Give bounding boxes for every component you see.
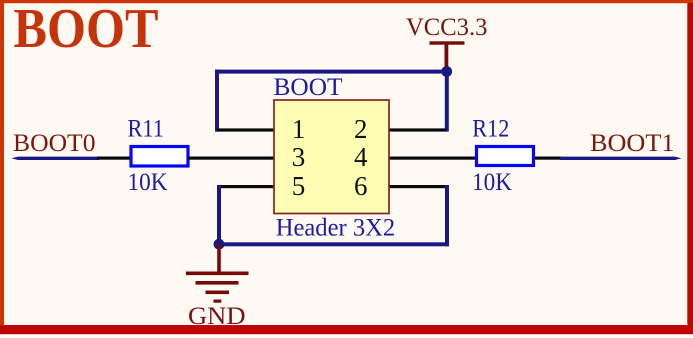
power symbol VCC3.3: [430, 41, 465, 67]
wire: pin 6 down-leg vertical: [445, 185, 449, 246]
svg-text:2: 2: [354, 114, 368, 144]
svg-text:5: 5: [292, 171, 306, 201]
svg-text:4: 4: [354, 142, 368, 172]
wire: right vertical (VCC junction to pin2): [445, 70, 449, 132]
wire: VCC net top horizontal: [215, 70, 449, 74]
wire: R11 to pin 3: [188, 157, 274, 160]
svg-text:BOOT1: BOOT1: [590, 130, 675, 157]
svg-text:10K: 10K: [472, 169, 512, 196]
wire: bottom horizontal (GND net): [217, 242, 449, 246]
svg-text:GND: GND: [188, 303, 246, 330]
wire: pin 1 stub: [217, 128, 274, 131]
svg-text:6: 6: [354, 171, 368, 201]
wire: pin 2 stub: [389, 128, 446, 131]
junction (GND node): [214, 239, 225, 250]
svg-text:Header 3X2: Header 3X2: [276, 214, 396, 241]
wire: pin 5 stub: [217, 185, 274, 188]
ground: [186, 244, 249, 303]
connector J1 body (Header 3X2): [274, 100, 389, 214]
wire: left vertical (pin1 to top): [215, 70, 219, 132]
resistor R11: [131, 147, 188, 167]
wire: pin 5 down-leg vertical: [217, 185, 221, 246]
svg-text:R11: R11: [128, 115, 165, 142]
wire: pin 6 stub: [389, 185, 446, 188]
resistor R12: [477, 147, 534, 166]
svg-text:BOOT: BOOT: [14, 0, 159, 60]
port BOOT1 (net entry line): [560, 157, 682, 160]
svg-text:BOOT0: BOOT0: [13, 130, 96, 157]
wire: R12 to BOOT1: [535, 157, 562, 160]
svg-text:BOOT: BOOT: [274, 74, 343, 101]
junction (VCC3.3 node): [441, 66, 452, 77]
wire: BOOT0 to R11: [97, 157, 131, 160]
svg-text:3: 3: [292, 142, 306, 172]
svg-text:10K: 10K: [128, 169, 168, 196]
svg-text:R12: R12: [472, 115, 509, 142]
port BOOT0 (net entry line): [12, 157, 100, 160]
wire: pin 4 to R12: [389, 157, 476, 160]
svg-text:VCC3.3: VCC3.3: [406, 14, 488, 41]
svg-text:1: 1: [292, 114, 306, 144]
